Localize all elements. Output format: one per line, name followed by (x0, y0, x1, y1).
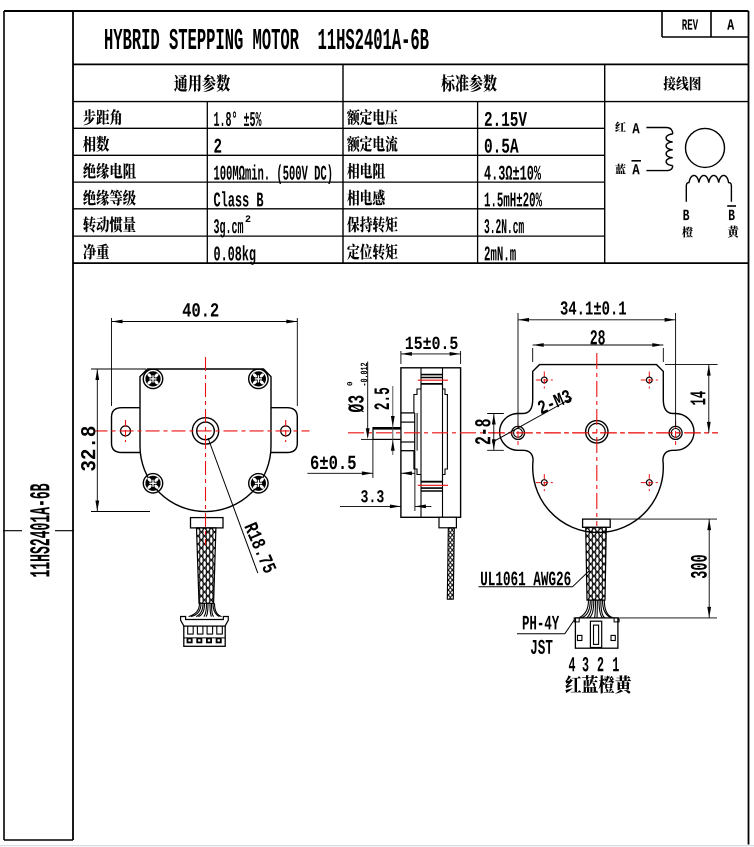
row6 value col2 (214, 245, 255, 265)
front right tab hole (281, 426, 291, 436)
wire from A to coil (646, 128, 672, 135)
row3 value col4 (484, 166, 541, 180)
dimension 6 plus-minus 0.5 (307, 440, 415, 478)
side front pilot boss (401, 413, 417, 451)
pin numbers 4 3 2 1 (569, 657, 619, 671)
motor rotor circle (686, 128, 725, 167)
row1 label col1 步距角 (83, 109, 121, 125)
back screw hole 2 (641, 372, 658, 389)
front left tab hole centerline (125, 420, 127, 442)
wire from A-bar to coil (646, 166, 672, 171)
front right mounting tab (271, 408, 297, 453)
radius leader R18.75 (208, 438, 277, 574)
row1 value col2 (214, 111, 261, 126)
row2 label col1 相数 (83, 136, 109, 152)
dimension 14 (665, 365, 718, 433)
back horizontal centerline (489, 432, 718, 434)
REV box (662, 11, 749, 37)
back cable fan-out wires (579, 600, 614, 618)
side shaft (373, 428, 401, 440)
front left tab hole (121, 426, 131, 436)
row5 value col4 (484, 219, 523, 233)
dimension 3.3 (340, 451, 431, 511)
side view centerline (348, 432, 718, 434)
wiring label yellow (728, 226, 739, 238)
row6 label col1 净重 (83, 243, 109, 259)
row4 value col4 (485, 192, 542, 206)
back cable braid (586, 527, 607, 600)
back vertical centerline (596, 353, 598, 526)
side view body outline (401, 368, 461, 518)
superscript 2 of 3g.cm2 (246, 215, 251, 222)
wire color names (565, 675, 631, 693)
back screw hole 3 (536, 474, 553, 491)
table grid lines (73, 64, 749, 263)
row2 value col2 (214, 139, 221, 153)
row3 value col2 (214, 164, 331, 184)
back screw hole 4 (641, 474, 658, 491)
strip center tick marks (3, 530, 74, 532)
wiring label red (615, 121, 626, 132)
header label wiring diagram (663, 76, 700, 90)
row5 label col3 保持转矩 (347, 216, 397, 232)
dimension dia 3 with tolerance (347, 362, 374, 440)
front view motor body outline (140, 369, 271, 512)
back JST connector (574, 618, 619, 648)
back ear hole centerlines (518, 421, 676, 445)
row2 value col4 (485, 139, 519, 153)
strip vertical part number 11HS2401A-6B (30, 484, 50, 577)
phase A coil (666, 134, 673, 166)
header label standard parameters (441, 74, 497, 92)
row1 label col3 额定电压 (347, 109, 397, 125)
phase B coil with leads (686, 175, 731, 201)
row6 value col4 (485, 246, 516, 260)
front screw 1 (143, 369, 162, 388)
row4 label col1 绝缘等级 (83, 190, 136, 206)
connector label PH-4Y JST (517, 616, 575, 654)
row3 label col1 绝缘电阻 (83, 163, 136, 179)
back right ear hole (669, 426, 682, 439)
cable spec label UL1061 AWG26 (479, 571, 590, 587)
back screw hole 1 (536, 372, 553, 389)
dimension 2.5 (374, 386, 394, 455)
thread callout 2-M3 (492, 389, 573, 442)
main title text (105, 29, 429, 50)
row1 value col4 (485, 112, 527, 126)
wiring terminal A-bar (632, 161, 642, 174)
side rotor stepped profile right (443, 384, 448, 482)
dimension 28 (533, 330, 664, 362)
row2 label col3 额定电流 (347, 136, 397, 152)
front screw 4 (249, 474, 268, 493)
front left mounting tab (112, 408, 141, 453)
row6 label col3 定位转矩 (347, 244, 397, 260)
header label general parameters (174, 74, 230, 92)
wiring terminal A (632, 123, 639, 133)
dimension 34.1 plus-minus 0.1 (518, 301, 676, 427)
front horizontal centerline (94, 430, 310, 432)
wiring label orange (682, 226, 693, 237)
dimension 300 cable length (611, 519, 717, 618)
left title strip divider (72, 11, 74, 840)
side cable braid (447, 528, 454, 599)
row5 value col2 (214, 219, 243, 237)
wiring label blue (615, 164, 626, 174)
front screw 3 (143, 474, 162, 493)
row4 value col2 (214, 191, 263, 206)
dimension 40.2 (112, 303, 298, 406)
front screw 2 (249, 369, 268, 388)
front shaft circles (192, 418, 218, 444)
front JST connector (181, 617, 229, 647)
back left ear hole (512, 426, 525, 439)
back strain relief (583, 519, 611, 527)
wiring terminal B-bar (727, 206, 736, 220)
row4 label col3 相电感 (347, 190, 385, 206)
side strain relief (439, 517, 456, 528)
front cable strain relief (191, 518, 224, 528)
side view internal verticals (421, 368, 443, 518)
front right tab hole centerline (285, 420, 287, 442)
side stator stack bottom marks (418, 482, 448, 491)
front cable fan-out wires (189, 603, 222, 616)
dimension 2-8 ear slot (475, 414, 504, 451)
dimension 15 plus-minus 0.5 (401, 337, 461, 364)
wiring terminal B (683, 210, 689, 220)
front cable braid (197, 528, 216, 603)
side stator stack top marks (418, 375, 448, 384)
dimension 32.8 (81, 369, 150, 512)
front vertical centerline (205, 357, 207, 545)
back view motor body outline (500, 365, 694, 533)
back center boss circles (586, 421, 608, 443)
side rotor stepped profile left (414, 384, 421, 482)
row3 label col3 相电阻 (347, 163, 385, 179)
row5 label col1 转动惯量 (83, 216, 136, 232)
